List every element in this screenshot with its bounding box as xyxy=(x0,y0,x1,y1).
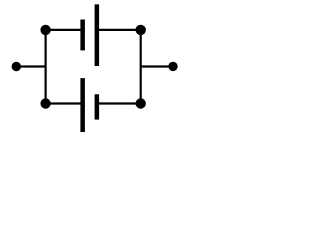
left terminal xyxy=(12,62,21,71)
wire: cell B2 to bottom-right node xyxy=(99,102,141,104)
cell B1 negative plate (short) xyxy=(80,20,85,51)
wire: left riser xyxy=(44,30,46,104)
wire: cell B1 to top-right node xyxy=(99,29,141,31)
cell B2 negative plate (short) xyxy=(95,94,100,119)
wire: bottom rail to cell B2 xyxy=(46,102,81,104)
wire: top rail to cell B1 xyxy=(46,29,81,31)
node: bottom-right junction xyxy=(136,98,146,108)
node: top-right junction xyxy=(136,25,146,35)
wire: left terminal to left riser xyxy=(16,65,45,67)
cell B2 positive plate (long) xyxy=(80,78,85,132)
cell B1 positive plate (long) xyxy=(95,4,100,66)
node: bottom-left junction xyxy=(40,98,50,108)
wire: right riser xyxy=(140,30,142,104)
wire: right riser to right terminal xyxy=(141,65,173,67)
right terminal xyxy=(168,62,177,71)
node: top-left junction xyxy=(40,25,50,35)
